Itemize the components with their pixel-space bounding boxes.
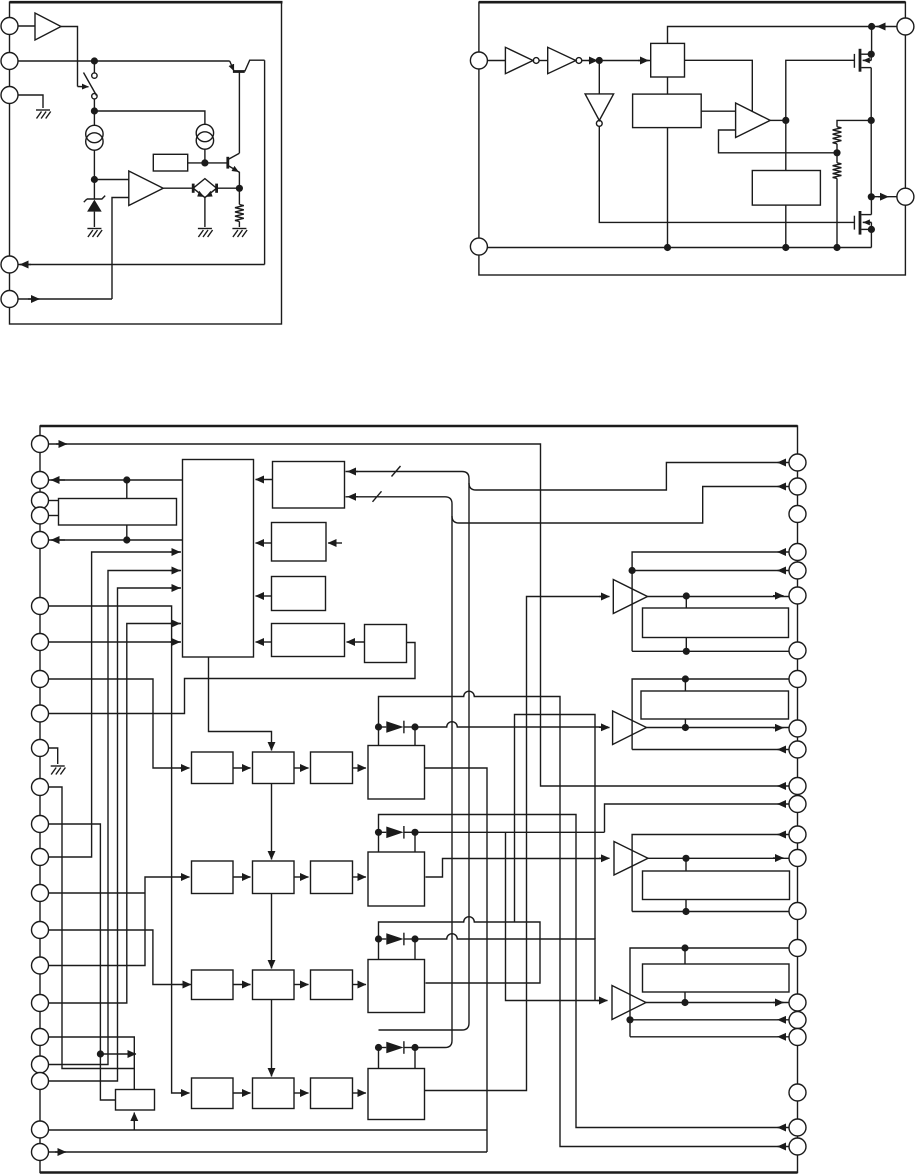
wire U12 to logic [256,479,273,481]
wire M1 drain to output node [870,68,872,197]
node test arrow [97,1050,104,1057]
wire B2 out [701,110,735,112]
wire divider top [837,120,871,126]
wire opamp inverting input to pin5 [112,198,129,300]
node divider mid [836,144,838,163]
wire PA2 bottom to pin R10 [632,749,789,751]
pin R10 [789,741,806,758]
wire U16 to U15 [347,641,365,643]
wire U11 bottom to node [126,525,128,540]
pin R12 [789,796,806,813]
ground bus (fig2) [487,247,871,249]
wire FB4 to PA4 out node [684,992,686,1003]
wire pin L21 bottom bus [49,1129,488,1131]
wire pin L1 top bus [49,444,790,786]
box ch1 filter [311,752,353,784]
wire ch1 filter to predriver [353,767,367,769]
pin 4 (fig1 OUT) [1,256,18,273]
pin R15 [789,903,806,920]
wire pin2 rail [18,60,230,62]
wire comparator feedback hook [719,130,838,153]
pin R20 [789,1084,806,1101]
wire ch3 phase to mixer [233,984,251,986]
wire ch2 phase to mixer [233,876,251,878]
wire ch2 filter to predriver [353,876,367,878]
transistor Q2 [226,157,229,169]
current source I2 [196,124,213,141]
wire Q1 collector to pin4 [264,60,266,264]
wire pin L7 to logic [49,641,182,643]
pin L16 [32,957,49,974]
pin R5 [789,562,806,579]
wire ch4 filter to predriver [353,1092,367,1094]
wire ch2 mixer to filter [294,876,309,878]
MOSFET M1 (high side) [854,49,871,72]
wire ch3 mixer to filter [294,984,309,986]
pin L6 [32,598,49,615]
wire PA1 bottom rail to pin R7 [632,650,789,652]
pin R1 [789,454,806,471]
wire pin L14 riser to row2 [49,892,146,894]
diode D5 bootstrap [379,1041,416,1054]
wire ch2 out to amp3 [426,859,609,878]
pin R14 (OUT3) [789,850,806,867]
box ch2 filter [311,861,353,894]
wire U15 to logic [256,641,272,643]
figure 2 frame [479,2,906,275]
wire comparator out node [770,119,786,121]
box FB3 sense [643,871,790,900]
wire PA3 bottom rail to pin R15 [632,911,789,913]
pin L8 [32,671,49,688]
wire buffer output to switch [61,27,78,87]
wire D2 cathode to predriver [414,727,416,746]
pin R2 [789,478,806,495]
pin L20 [32,1073,49,1090]
box ch2 mixer [253,861,295,894]
resistor R2 [833,127,842,144]
wire bootstrap bus A down [379,483,470,1030]
box ch4 filter [311,1078,353,1109]
node zener/opamp [91,176,98,183]
box U17 (mute) [116,1090,155,1111]
box FB1 sense [643,608,789,638]
inverter U1 [487,60,505,62]
pin 3 (fig2 OUT) [897,188,914,205]
bus slash R1 [392,466,401,477]
wire logic to ch1 mixer (spine) [209,657,272,750]
diode D2 bootstrap [379,721,416,734]
wire top rail to FB2 [684,679,686,691]
pin R13 [789,826,806,843]
node current rail [91,107,98,114]
wire pin R12 riser [605,804,790,832]
box U10 control logic [183,460,254,658]
pin R4 [789,544,806,561]
wire FB1 to bottom rail [685,638,687,652]
pin R9 (OUT2) [789,720,806,737]
stub U13 input [328,542,341,544]
wire node to I2 branch [94,111,204,124]
pin 1 (fig2 IN) [470,52,487,69]
wire pin L4 to U11 [49,515,59,517]
figure 3 frame [40,426,798,1173]
pin L15 [32,922,49,939]
wire PA3 out node to FB3 [685,858,687,871]
inverter U3 [598,61,600,94]
MOSFET M2 (low side) [854,197,871,235]
pin R11 [789,778,806,795]
wire B1 to Q2 base node [188,162,228,164]
figure 1 frame [10,2,282,324]
transistor Q1 (PNP) [230,61,234,71]
wire pin L6 riser to row4 [49,606,188,1093]
wire pin L12 riser [49,824,116,1100]
box U14 [272,577,326,611]
wire SB out to comparator [685,60,753,111]
wire output node to pin3 [871,196,897,198]
wire ch3 cathode net [415,934,595,1001]
ground (pin3) [36,110,51,119]
pin R17 (OUT4) [789,994,806,1011]
wire limiter to Q2 emitter [217,187,240,189]
wire D3 cathode to predriver [414,832,416,852]
box ch3 phase [192,970,234,1000]
wire ch1 phase to mixer [233,767,251,769]
wire ch4 out to amp1 [425,597,608,1091]
wire node to U11 top [126,480,128,499]
pin L9 [32,705,49,722]
wire SB to B2 [667,77,669,94]
box ch4 phase [192,1078,234,1109]
box B2 (charge pump) [633,94,702,128]
pin L17 [32,995,49,1012]
wire pin L11 to mute box riser [49,787,135,1069]
wire B2 to bus [667,128,669,248]
bus slash R2 [373,491,382,502]
box ch3 mixer [253,970,295,1000]
current limiter symbol X1 [193,179,216,198]
pin R21 [789,1119,806,1136]
wire pin R1 data bus [346,463,790,491]
buffer amp A1 [18,25,35,27]
wire D4 anode to predriver [378,939,380,960]
pin 1 (fig1 IN) [1,18,18,35]
wire FB2 to PA2 out node [684,719,686,728]
wire pin L20 riser to logic [49,588,182,1081]
pin R18 [789,1012,806,1029]
box ch2 predriver [368,852,425,906]
wire ch2 mixer to ch3 mixer [271,894,273,968]
wire pin R4 sense [632,552,789,651]
wire U3 out to M2 gate [599,126,854,222]
pin L4 [32,507,49,524]
wire pin L10 to ground [49,748,58,764]
box U16 [365,625,407,663]
pin R22 [789,1138,806,1155]
box ch4 mixer [253,1078,295,1109]
zener diode D1 [93,180,95,200]
pin L21 [32,1121,49,1138]
wire D4 cathode to predriver [414,939,416,960]
wire PA1 out to pin R6 [648,596,790,598]
wire ch3 bootstrap top [379,917,541,983]
wire pin R5 sense [632,570,789,572]
wire pin2 node to M1 [871,27,873,55]
wire pin4 [18,264,265,266]
wire pin R2 clock bus [346,487,790,524]
wire pin L15 riser to row3 [49,930,189,985]
wire bootstrap bus B down [415,516,452,1048]
pin R3 [789,506,806,523]
wire pin R13 sense [632,835,789,912]
wire PA4 bottom to pin R19 [630,1036,789,1038]
wire pin L18 riser to mute box [49,1037,135,1090]
wire ch4 mixer to filter [294,1092,309,1094]
wire opamp out to limiter [163,187,193,189]
box ch4 predriver [368,1069,425,1120]
box ch3 filter [311,970,353,1000]
pin L3 [32,492,49,509]
comparator A3 [736,103,771,138]
box B1 (bias) [153,154,187,171]
box FB2 sense [641,691,789,719]
wire D5 cathode to predriver [414,1048,416,1069]
wire ch3 mixer to ch4 mixer [271,1000,273,1076]
wire D2 anode to predriver [378,727,380,746]
wire pin R16 top rail [630,948,789,1037]
op-amp PA4 [612,986,646,1020]
wire U16 to pin L9 [49,643,416,714]
op-amp A2 [94,179,128,181]
pin 5 (fig1 FB) [1,291,18,308]
wire ch1 cathode to amp2 [415,722,608,727]
op-amp PA3 [614,842,648,876]
wire ch4 phase to mixer [233,1092,251,1094]
box ch1 phase [192,752,234,784]
box FB4 sense [643,964,790,992]
pin 4 (fig2 GND) [470,238,487,255]
pin R7 [789,642,806,659]
pin L13 [32,849,49,866]
diode D3 bootstrap [379,826,416,839]
wire loop net [515,715,596,940]
wire PA4 mid to pin R18 [626,1016,633,1023]
box SB (oscillator) [651,43,685,77]
node Q2 emitter [236,185,243,192]
pin L7 [32,634,49,651]
wire ch1 bootstrap top [379,691,790,1146]
wire ch2 bootstrap top [379,815,790,1128]
ground (R1) [232,229,247,238]
wire pin L22 bottom bus [49,1151,488,1153]
wire pin R8 top rail [632,679,789,750]
current source I1 [93,108,95,125]
pin 3 (fig1 GND) [1,87,18,104]
box ch1 mixer [253,752,295,784]
pin R16 [789,940,806,957]
wire ch3 filter to predriver [353,984,367,986]
pin L2 [32,472,49,489]
pin L18 [32,1029,49,1046]
wire M2 source to bus [870,229,872,247]
wire U13 to logic [256,542,272,544]
wire divider to bus [836,178,838,247]
pin 2 (fig2 VM) [897,18,914,35]
wire pin L17 riser to logic [49,624,182,1004]
ground (zener) [87,229,102,238]
ground (pin L10) [51,766,66,775]
wire pin5 [18,298,112,300]
diode D4 bootstrap [379,933,416,946]
wire U14 to logic [256,595,272,597]
wire amp4 input feed [506,832,607,1000]
box U11 (reference) [59,499,177,526]
wire pin L8 riser to row1 [49,679,188,768]
op-amp PA1 [613,580,647,614]
arrow pin L21 into U17 [133,1114,135,1130]
wire PA3 out to pin R14 [648,857,789,859]
wire row1 out riser [424,768,487,1152]
wire pin2 to SB top [668,27,897,44]
switch SW1 [93,64,95,73]
wire out node to M1 gate [786,60,855,120]
wire out node to B3 [785,120,787,170]
wire ch1 mixer to ch2 mixer [271,784,273,859]
pin L19 [32,1056,49,1073]
ground (limiter) [198,229,213,238]
op-amp PA2 [613,711,647,745]
pin L10 (GND) [32,740,49,757]
pin L5 [32,532,49,549]
resistor R1 [238,188,240,204]
wire pin L19 riser to logic [49,571,182,1065]
box ch1 predriver [368,746,425,800]
resistor R3 [833,163,842,179]
wire B3 to bus [785,205,787,247]
pin R19 [789,1029,806,1046]
box U15 [272,624,345,657]
wire limiter to ground [204,198,206,227]
wire PA1 out node to FB1 [685,596,687,608]
pin L22 [32,1144,49,1161]
box B3 (timer) [752,171,820,206]
wire inverter out to level box [582,60,651,62]
wire pin3 to ground [18,95,43,108]
wire D5 anode to predriver [378,1048,380,1069]
wire ch1 mixer to filter [294,767,309,769]
box ch2 phase [192,861,234,894]
inverter U2 [539,60,548,62]
wire pin L13 riser to logic [49,552,182,857]
pin L1 (OSC) [32,436,49,453]
pin 2 (fig1 VCC) [1,53,18,70]
box U13 [272,523,327,562]
wire pin L5 from logic [49,539,183,541]
pin R6 (OUT1) [789,587,806,604]
wire FB3 to bottom rail [685,900,687,912]
wire PA2 out to pin R9 [647,727,790,729]
wire top rail to FB4 [684,948,686,964]
wire pin L3 to U11 [49,500,59,502]
wire pin L2 from logic [49,479,183,481]
wire D3 anode to predriver [378,832,380,852]
pin R8 [789,671,806,688]
wire pin L16 riser to row2 [49,877,188,966]
box U12 (serial interface) [273,462,345,509]
wire ch2 cathode net [415,831,605,833]
pin L11 [32,779,49,796]
wire PA4 out to pin R17 [646,1002,789,1004]
pin L12 [32,816,49,833]
pin L14 [32,885,49,902]
box ch3 predriver [368,960,425,1013]
